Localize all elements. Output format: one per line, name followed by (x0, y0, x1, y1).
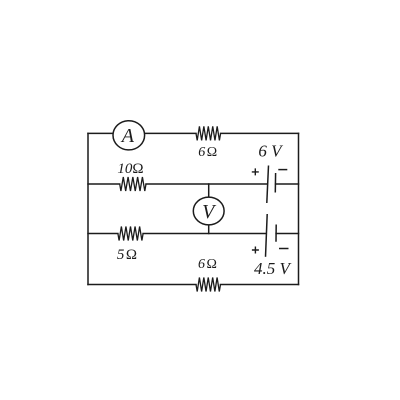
svg-text:10Ω: 10Ω (117, 161, 143, 177)
wire top-right segment (resistor to corner) (221, 132, 299, 134)
wire row3 left (left rail to 5-ohm resistor) (88, 233, 118, 235)
battery B2 (4.5 V) negative plate (275, 225, 277, 242)
wire row2 right (battery B1 to right rail) (276, 183, 299, 185)
battery B1 (6 V) negative plate (274, 173, 276, 193)
ammeter A (113, 121, 145, 150)
svg-text:4.5 V: 4.5 V (254, 259, 293, 278)
svg-text:6 V: 6 V (258, 142, 284, 161)
voltmeter V (193, 197, 224, 225)
minus sign of battery B1 (278, 169, 287, 171)
svg-text:6Ω: 6Ω (198, 257, 217, 272)
wire bottom-right segment (221, 284, 299, 286)
svg-text:6Ω: 6Ω (198, 145, 217, 160)
resistor 6 ohm (bottom) (196, 278, 221, 292)
wire row2 middle (10-ohm resistor to battery B1) (146, 183, 267, 185)
wire top-middle segment (ammeter to resistor) (145, 132, 196, 134)
plus sign of battery B1 (252, 168, 259, 175)
wire row3 right (battery B2 to right rail) (276, 233, 298, 235)
wire top-left segment (88, 132, 113, 134)
wire row3 middle (5-ohm resistor to battery B2) (143, 233, 266, 235)
resistor 6 ohm (top) (196, 126, 221, 140)
battery B1 (6 V) positive plate (267, 166, 269, 204)
plus sign of battery B2 (252, 247, 259, 254)
svg-text:A: A (120, 125, 135, 147)
wire right vertical (298, 133, 300, 284)
svg-text:5Ω: 5Ω (117, 247, 137, 263)
minus sign of battery B2 (279, 248, 289, 250)
wire left vertical (87, 133, 89, 284)
wire bottom-left segment (88, 284, 196, 286)
battery B2 (4.5 V) positive plate (266, 214, 268, 257)
wire voltmeter top stub (208, 184, 210, 197)
wire row2 left (left rail to 10-ohm resistor) (88, 183, 120, 185)
resistor 5 ohm (118, 227, 143, 241)
resistor 10 ohm (120, 177, 146, 191)
wire voltmeter bottom stub (208, 225, 210, 234)
